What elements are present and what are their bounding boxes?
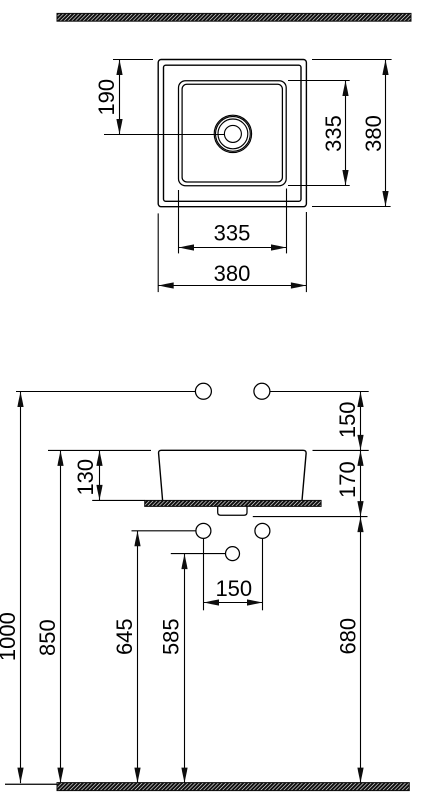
extension line: 645 level to circle	[132, 530, 196, 532]
drain center leader line	[104, 134, 225, 136]
dimension 1000 (far left)	[20, 392, 22, 784]
extension line: basin rim level (left)	[48, 449, 151, 451]
elevation: wall fixing circles (upper pair)	[195, 383, 270, 399]
dimension 380 (top view right vertical)	[312, 60, 392, 207]
floor section (hatched)	[57, 783, 409, 791]
dimension 190 (top view left)	[113, 60, 153, 135]
svg-text:335: 335	[321, 115, 346, 152]
leader: small circle to 585	[171, 553, 226, 555]
drain circles	[214, 115, 251, 152]
svg-text:850: 850	[35, 619, 60, 656]
svg-text:1000: 1000	[0, 612, 20, 661]
svg-text:150: 150	[335, 401, 360, 438]
extension line: drain bottom level (right)	[253, 516, 368, 518]
elevation: lower fixing circles pair	[196, 523, 270, 538]
svg-text:680: 680	[336, 618, 361, 655]
top view: inner basin rim (double line)	[179, 81, 287, 186]
dimension 380 (top view bottom horizontal)	[158, 212, 306, 292]
top view: outer square of basin	[158, 60, 306, 207]
dimension 335 (top view bottom horizontal)	[179, 189, 287, 254]
svg-text:190: 190	[94, 79, 119, 116]
dimension 335 (top view right vertical)	[288, 81, 350, 186]
extension line: basin rim level (right)	[313, 449, 369, 451]
upper reference line through circles	[16, 391, 369, 393]
floor line (thin, left)	[5, 783, 57, 785]
svg-text:380: 380	[214, 261, 251, 286]
dimension 850	[60, 450, 62, 783]
dimension 585	[184, 554, 186, 784]
dimension 130	[99, 450, 101, 500]
svg-text:150: 150	[215, 576, 252, 601]
dimension 645	[137, 531, 139, 783]
svg-text:170: 170	[335, 461, 360, 498]
elevation: basin profile	[159, 450, 307, 500]
extension line: countertop top (left)	[92, 499, 144, 501]
dimension chain 150/170/680 (right)	[360, 392, 362, 784]
elevation: small center circle	[226, 547, 240, 561]
elevation: drain trap under counter	[218, 506, 247, 516]
dimension 150 (between lower circles)	[204, 539, 263, 611]
svg-text:585: 585	[158, 618, 183, 655]
svg-text:645: 645	[112, 618, 137, 655]
svg-text:380: 380	[361, 115, 386, 152]
wall section (top of page)	[57, 13, 411, 21]
svg-text:130: 130	[73, 459, 98, 496]
svg-text:335: 335	[214, 221, 251, 246]
elevation: countertop section (hatched)	[145, 500, 321, 506]
